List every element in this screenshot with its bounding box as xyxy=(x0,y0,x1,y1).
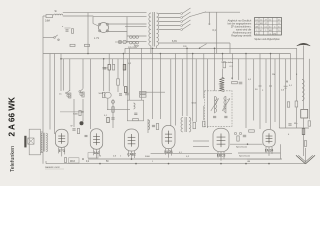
svg-text:UB: UB xyxy=(247,161,251,163)
svg-text:12: 12 xyxy=(260,19,262,21)
svg-text:M: M xyxy=(286,80,288,84)
svg-text:47: 47 xyxy=(265,23,267,25)
svg-text:1,2: 1,2 xyxy=(278,30,280,32)
svg-text:2 A 66 WK: 2 A 66 WK xyxy=(8,97,17,137)
svg-text:Sprechtaste: Sprechtaste xyxy=(239,155,251,158)
svg-text:2M: 2M xyxy=(272,74,275,76)
svg-text:5: 5 xyxy=(256,30,257,32)
svg-text:12: 12 xyxy=(269,19,271,21)
svg-text:W: W xyxy=(71,126,73,128)
svg-text:5000: 5000 xyxy=(145,156,151,158)
svg-text:468: 468 xyxy=(269,30,272,32)
svg-text:0,1: 0,1 xyxy=(265,26,267,28)
svg-text:468: 468 xyxy=(260,23,263,25)
svg-text:L 71: L 71 xyxy=(94,36,100,40)
svg-text:12: 12 xyxy=(278,23,280,25)
svg-text:47: 47 xyxy=(256,23,258,25)
svg-text:468: 468 xyxy=(255,26,258,28)
svg-text:47: 47 xyxy=(265,19,267,21)
svg-text:5: 5 xyxy=(265,30,266,32)
svg-text:0,1: 0,1 xyxy=(256,19,258,21)
svg-text:0,8A: 0,8A xyxy=(45,20,50,23)
svg-text:0,1: 0,1 xyxy=(278,26,280,28)
svg-text:Regelung verstellt: Regelung verstellt xyxy=(231,34,251,37)
svg-text:2A66WK 41/42: 2A66WK 41/42 xyxy=(45,166,60,169)
svg-text:Sprechtaste: Sprechtaste xyxy=(236,145,248,148)
svg-text:47: 47 xyxy=(278,19,280,21)
svg-text:Telefunken: Telefunken xyxy=(10,146,16,172)
svg-text:W43: W43 xyxy=(70,161,75,163)
svg-text:0,1: 0,1 xyxy=(269,26,271,28)
svg-text:Spulen und Abgleichplan: Spulen und Abgleichplan xyxy=(254,38,280,41)
svg-text:47: 47 xyxy=(260,30,262,32)
svg-text:6,3V: 6,3V xyxy=(172,40,177,43)
svg-text:5: 5 xyxy=(261,26,262,28)
